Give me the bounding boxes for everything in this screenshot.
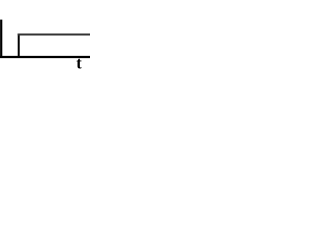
step top level: [18, 33, 90, 35]
step rising edge: [18, 34, 20, 58]
baseline (t axis): [0, 56, 90, 58]
svg-text:t: t: [76, 54, 82, 73]
vertical axis: [0, 20, 2, 57]
